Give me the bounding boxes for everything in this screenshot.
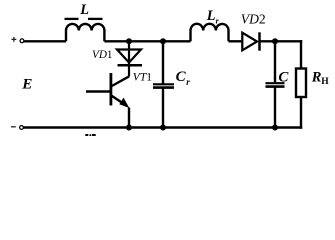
core bar left of L bbox=[65, 18, 79, 20]
label C bbox=[278, 69, 289, 85]
svg-text:C: C bbox=[278, 69, 289, 85]
svg-text:E: E bbox=[21, 75, 32, 92]
label VD1 bbox=[92, 49, 113, 61]
wire Lr to VD2 bbox=[229, 40, 243, 42]
svg-text:VD2: VD2 bbox=[241, 12, 266, 27]
inductor L bbox=[66, 24, 104, 41]
svg-text:VT1: VT1 bbox=[133, 72, 152, 84]
label VD2 bbox=[241, 12, 266, 27]
node Cr bottom junction bbox=[160, 125, 166, 131]
wire right branch top bbox=[300, 40, 302, 68]
clipped caption text at bottom edge bbox=[85, 134, 95, 136]
resistor RH bbox=[296, 69, 306, 98]
wire top middle segment bbox=[104, 40, 190, 42]
label Lr bbox=[206, 8, 220, 25]
label RH bbox=[311, 70, 330, 87]
emitter arrow of VT1 bbox=[119, 98, 129, 108]
terminal - bbox=[11, 126, 16, 128]
svg-text:L: L bbox=[79, 2, 89, 18]
capacitor C bbox=[266, 41, 285, 127]
svg-text:Н: Н bbox=[321, 77, 329, 87]
node C bottom junction bbox=[272, 125, 278, 131]
svg-text:r: r bbox=[186, 77, 190, 87]
wire top-left segment bbox=[24, 40, 66, 42]
terminal circle bottom bbox=[20, 126, 24, 130]
terminal circle top bbox=[20, 39, 24, 43]
node VD1 top junction bbox=[126, 38, 132, 44]
wire bottom bbox=[24, 126, 303, 128]
capacitor Cr bbox=[153, 41, 174, 127]
svg-text:L: L bbox=[206, 8, 216, 24]
node VT1 emitter bottom junction bbox=[126, 125, 132, 131]
node C top junction bbox=[272, 38, 278, 44]
source label E bbox=[21, 75, 32, 92]
inductor Lr bbox=[191, 24, 229, 41]
diode VD2 bbox=[242, 32, 259, 50]
transistor VT1 bbox=[86, 73, 129, 128]
svg-text:VD1: VD1 bbox=[92, 49, 113, 61]
label L bbox=[79, 2, 89, 18]
label Cr bbox=[176, 69, 191, 87]
node Cr top junction bbox=[160, 38, 166, 44]
terminal + bbox=[12, 37, 17, 42]
label VT1 bbox=[133, 72, 152, 84]
diode VD1 bbox=[117, 41, 142, 76]
wire right branch bottom bbox=[300, 97, 302, 129]
core bar right of L bbox=[88, 18, 103, 20]
wire VD2 to corner bbox=[260, 40, 303, 42]
svg-text:R: R bbox=[311, 70, 322, 86]
svg-text:C: C bbox=[176, 69, 187, 85]
